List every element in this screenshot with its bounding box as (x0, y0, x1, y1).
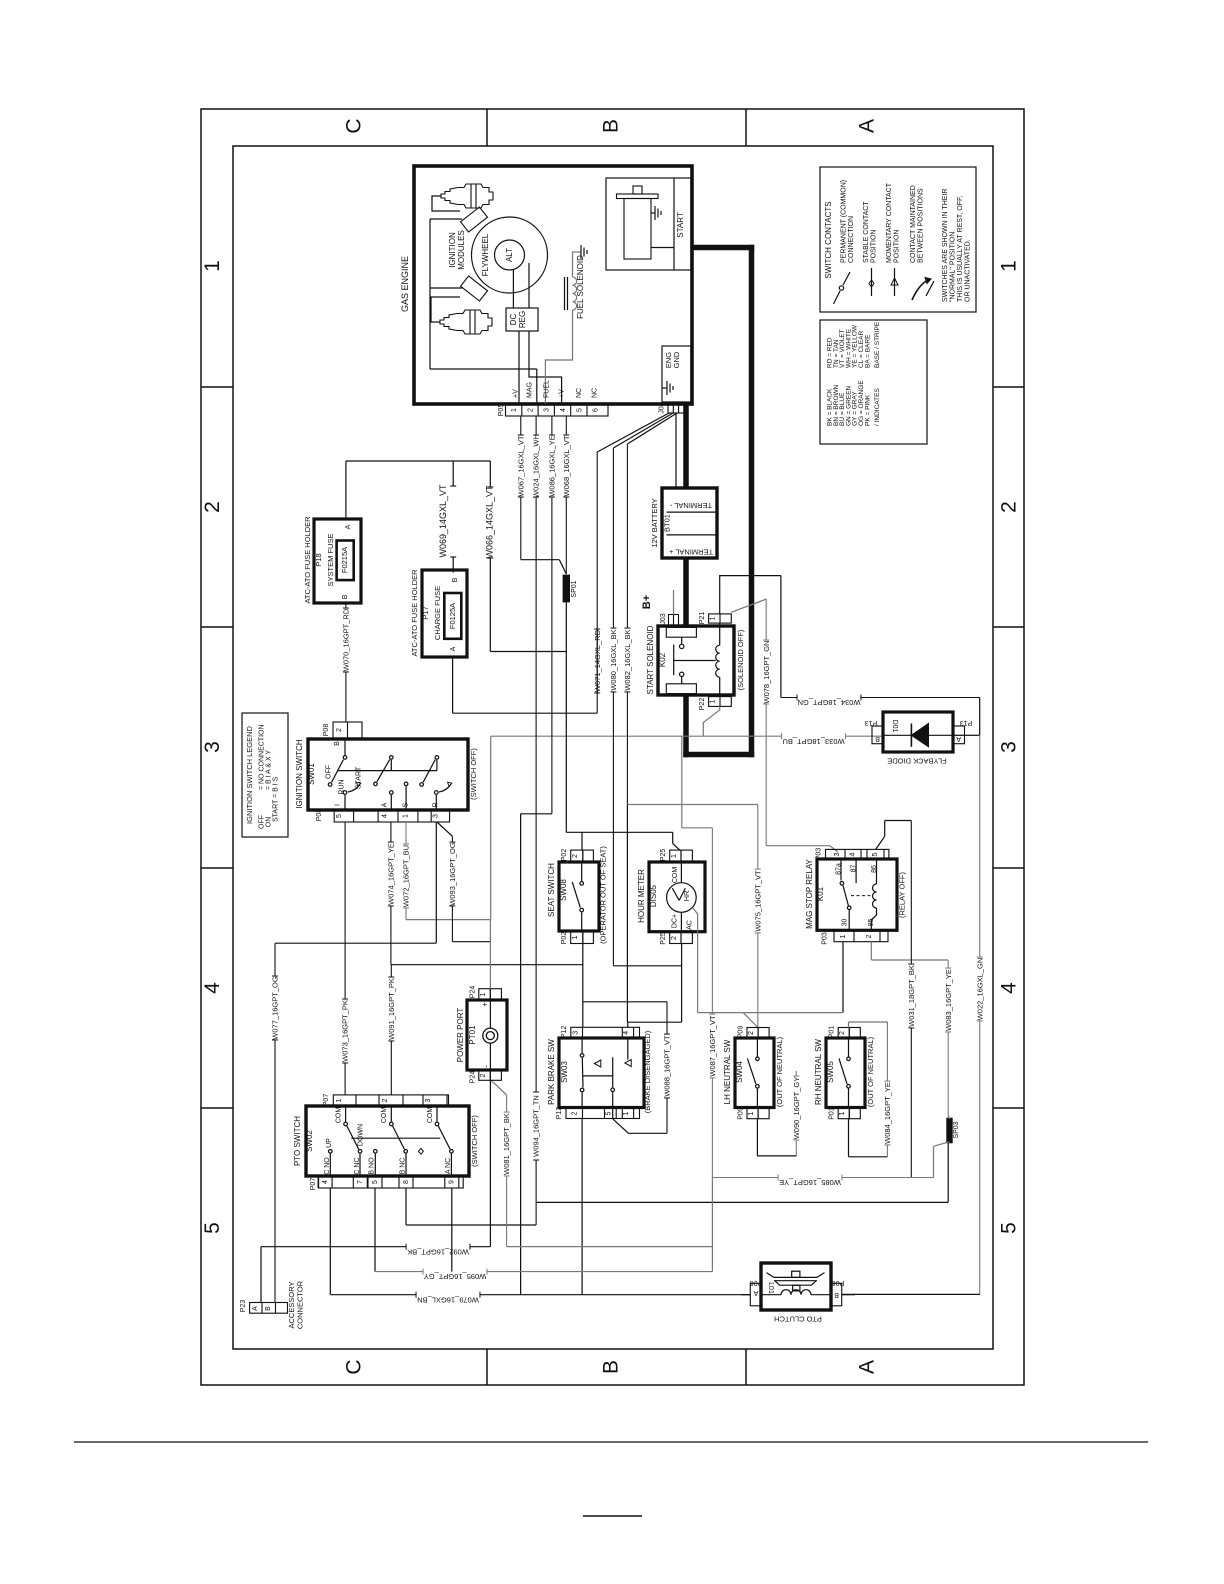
svg-text:2: 2 (201, 501, 224, 513)
svg-text:3: 3 (433, 814, 440, 818)
svg-text:GAS ENGINE: GAS ENGINE (400, 256, 410, 312)
svg-text:2: 2 (527, 408, 534, 412)
svg-text:W074_16GPT_YE: W074_16GPT_YE (387, 843, 396, 905)
svg-text:2: 2 (748, 1031, 755, 1035)
svg-text:3: 3 (998, 741, 1021, 753)
svg-text:OFF: OFF (326, 765, 333, 779)
svg-text:P25: P25 (660, 849, 667, 862)
svg-text:IGNITION SWITCH LEGEND: IGNITION SWITCH LEGEND (245, 725, 254, 824)
svg-text:W084_16GPT_YE: W084_16GPT_YE (883, 1082, 892, 1144)
svg-text:P09: P09 (738, 1107, 745, 1120)
svg-text:RUN: RUN (339, 779, 346, 794)
svg-text:3: 3 (544, 408, 551, 412)
svg-text:5: 5 (576, 408, 583, 412)
svg-text:P05: P05 (498, 404, 505, 417)
svg-text:MAG: MAG (527, 382, 534, 398)
svg-text:3: 3 (201, 741, 224, 753)
svg-text:B: B (875, 735, 880, 742)
svg-text:+V: +V (559, 389, 566, 398)
svg-text:J04: J04 (659, 402, 666, 413)
svg-text:FUEL SOLENOID: FUEL SOLENOID (576, 255, 585, 319)
svg-text:P02: P02 (561, 849, 568, 862)
svg-text:SP03: SP03 (953, 1121, 960, 1138)
svg-text:COM: COM (336, 1107, 343, 1124)
svg-text:W092_16GPT_BK: W092_16GPT_BK (407, 1247, 469, 1256)
svg-text:P08: P08 (323, 724, 330, 737)
svg-text:OR UNACTIVATED.: OR UNACTIVATED. (965, 239, 972, 302)
svg-text:SP01: SP01 (571, 580, 578, 597)
svg-text:12V BATTERY: 12V BATTERY (650, 498, 659, 547)
svg-text:2: 2 (572, 854, 579, 858)
svg-text:3: 3 (573, 1031, 580, 1035)
svg-text:PERMANENT (COMMON): PERMANENT (COMMON) (841, 180, 848, 263)
svg-text:P23: P23 (240, 1300, 247, 1313)
svg-text:F0125A: F0125A (448, 603, 457, 629)
svg-text:P06: P06 (832, 1279, 845, 1286)
svg-text:P12: P12 (556, 1107, 563, 1120)
svg-text:SW02: SW02 (305, 1130, 314, 1152)
svg-text:1: 1 (402, 814, 409, 818)
svg-text:(SWITCH OFF): (SWITCH OFF) (469, 748, 478, 800)
svg-text:2: 2 (382, 1098, 389, 1102)
svg-text:(OUT OF NEUTRAL): (OUT OF NEUTRAL) (775, 1036, 784, 1107)
svg-text:A: A (345, 524, 352, 529)
svg-text:/ INDICATES: / INDICATES (874, 388, 881, 426)
svg-text:5: 5 (606, 1111, 613, 1115)
svg-text:THIS IS USUALLY AT REST, OFF,: THIS IS USUALLY AT REST, OFF, (957, 195, 964, 302)
svg-text:W073_16GPT_PK: W073_16GPT_PK (341, 1000, 350, 1062)
svg-text:W086_16GXL_YE: W086_16GXL_YE (548, 435, 557, 496)
svg-text:= NO CONNECTION: = NO CONNECTION (259, 724, 266, 790)
svg-text:(OUT OF NEUTRAL): (OUT OF NEUTRAL) (866, 1036, 875, 1107)
svg-text:BETWEEN POSITIONS: BETWEEN POSITIONS (918, 188, 925, 263)
svg-text:NC: NC (591, 388, 598, 398)
svg-text:W034_18GPT_GN: W034_18GPT_GN (798, 698, 861, 707)
svg-text:C: C (343, 118, 366, 133)
svg-text:W072_16GPT_BU: W072_16GPT_BU (402, 845, 411, 907)
svg-text:DC+: DC+ (672, 914, 679, 928)
svg-text:W090_16GPT_GY: W090_16GPT_GY (792, 1077, 801, 1140)
svg-text:FLYWHEEL: FLYWHEEL (481, 233, 490, 276)
svg-text:BT01: BT01 (663, 514, 672, 532)
svg-text:OFF: OFF (259, 815, 266, 829)
svg-text:B: B (600, 1360, 623, 1374)
svg-text:B: B (342, 594, 349, 599)
svg-text:A: A (856, 1360, 879, 1374)
svg-text:B: B (452, 577, 459, 582)
svg-text:NC: NC (576, 388, 583, 398)
svg-text:P13: P13 (865, 719, 878, 726)
svg-text:P24: P24 (470, 986, 477, 999)
svg-text:W066_14GXL_VT: W066_14GXL_VT (485, 485, 495, 559)
svg-text:W071_14GXL_RD: W071_14GXL_RD (593, 629, 602, 692)
svg-text:POSITION: POSITION (894, 230, 901, 263)
svg-text:ON: ON (266, 817, 273, 828)
svg-text:W075_16GPT_VT: W075_16GPT_VT (753, 870, 762, 932)
svg-text:A: A (956, 735, 961, 742)
svg-text:1: 1 (623, 1111, 630, 1115)
svg-text:I: I (335, 804, 342, 806)
svg-text:"NORMAL" POSITION.: "NORMAL" POSITION. (950, 230, 957, 302)
svg-text:4: 4 (850, 852, 857, 856)
svg-text:P07: P07 (310, 1178, 317, 1191)
svg-text:4: 4 (201, 982, 224, 994)
svg-text:P02: P02 (561, 932, 568, 945)
svg-text:COM: COM (381, 1107, 388, 1124)
svg-text:SW01: SW01 (307, 763, 316, 785)
svg-text:2: 2 (866, 934, 873, 938)
svg-text:+: + (481, 1002, 490, 1007)
svg-text:IGNITION: IGNITION (448, 232, 457, 268)
svg-text:W083_16GPT_YE: W083_16GPT_YE (944, 969, 953, 1031)
svg-text:W077_16GPT_OG: W077_16GPT_OG (271, 976, 280, 1040)
svg-text:5: 5 (872, 852, 879, 856)
svg-text:SW08: SW08 (559, 879, 568, 901)
svg-text:1: 1 (671, 854, 678, 858)
svg-text:TERMINAL -: TERMINAL - (669, 501, 712, 510)
svg-text:2: 2 (998, 501, 1021, 513)
svg-text:MAG STOP RELAY: MAG STOP RELAY (805, 858, 814, 928)
svg-text:1: 1 (840, 934, 847, 938)
svg-text:P22: P22 (699, 698, 706, 711)
svg-text:P13: P13 (960, 719, 973, 726)
svg-text:5: 5 (336, 814, 343, 818)
svg-text:B NO: B NO (369, 1157, 376, 1175)
svg-text:9: 9 (449, 1180, 456, 1184)
svg-text:P08: P08 (316, 809, 323, 822)
svg-text:5: 5 (372, 1180, 379, 1184)
svg-text:B: B (600, 119, 623, 133)
svg-text:A: A (382, 802, 389, 807)
svg-text:8: 8 (403, 1180, 410, 1184)
svg-text:W069_14GXL_VT: W069_14GXL_VT (438, 484, 448, 558)
svg-text:CONNECTOR: CONNECTOR (296, 1280, 305, 1329)
svg-text:P25: P25 (660, 932, 667, 945)
svg-text:1: 1 (748, 1111, 755, 1115)
svg-text:1: 1 (572, 935, 579, 939)
svg-text:J03: J03 (660, 613, 667, 624)
svg-text:SWITCH CONTACTS: SWITCH CONTACTS (824, 201, 833, 278)
svg-text:ATC-ATO FUSE HOLDER: ATC-ATO FUSE HOLDER (410, 569, 419, 657)
svg-text:W033_18GPT_BU: W033_18GPT_BU (782, 737, 844, 746)
svg-text:GND: GND (672, 351, 681, 368)
svg-text:R: R (433, 802, 440, 807)
svg-text:1: 1 (336, 1098, 343, 1102)
svg-text:POSITION: POSITION (871, 230, 878, 263)
svg-text:5: 5 (998, 1222, 1021, 1234)
svg-text:W087_16GPT_VT: W087_16GPT_VT (708, 1015, 717, 1077)
svg-text:B: B (334, 741, 341, 746)
svg-text:3: 3 (425, 1098, 432, 1102)
svg-text:W068_16GXL_VT: W068_16GXL_VT (562, 435, 571, 496)
svg-text:CONTACT MAINTAINED: CONTACT MAINTAINED (910, 185, 917, 263)
svg-text:F0215A: F0215A (340, 547, 349, 573)
svg-text:AC: AC (687, 920, 694, 930)
svg-text:P03: P03 (822, 932, 829, 945)
svg-text:P17: P17 (421, 606, 430, 619)
svg-text:4: 4 (998, 982, 1021, 994)
svg-text:= B I A & X Y: = B I A & X Y (266, 750, 273, 790)
svg-text:30: 30 (842, 919, 849, 927)
svg-text:+V: +V (512, 389, 519, 398)
svg-text:4: 4 (560, 408, 567, 412)
svg-text:L01: L01 (767, 1282, 774, 1294)
svg-text:A: A (450, 646, 457, 651)
svg-text:4: 4 (623, 1031, 630, 1035)
svg-text:START SOLENOID: START SOLENOID (646, 625, 655, 694)
svg-text:P24: P24 (470, 1071, 477, 1084)
svg-text:IGNITION SWITCH: IGNITION SWITCH (295, 739, 304, 809)
svg-text:D01: D01 (891, 720, 898, 733)
svg-text:P12: P12 (561, 1026, 568, 1039)
svg-text:W088_16GPT_VT: W088_16GPT_VT (663, 1035, 672, 1097)
svg-text:W022_16GXL_GN: W022_16GXL_GN (975, 958, 984, 1021)
svg-text:CONNECTION: CONNECTION (848, 216, 855, 263)
svg-text:W070_16GPT_RD: W070_16GPT_RD (342, 608, 351, 671)
svg-text:FLYBACK DIODE: FLYBACK DIODE (887, 757, 946, 766)
svg-text:SWITCHES ARE SHOWN IN THEIR: SWITCHES ARE SHOWN IN THEIR (942, 189, 949, 302)
svg-text:(RELAY OFF): (RELAY OFF) (898, 872, 907, 918)
svg-text:ALT: ALT (505, 248, 514, 262)
svg-text:W079_16GXL_BN: W079_16GXL_BN (417, 1295, 479, 1304)
svg-text:W093_16GPT_OG: W093_16GPT_OG (448, 842, 457, 906)
svg-text:PK = PINK: PK = PINK (864, 394, 871, 426)
svg-text:2: 2 (480, 1073, 487, 1077)
svg-text:(OPERATOR OUT OF SEAT): (OPERATOR OUT OF SEAT) (599, 846, 608, 944)
svg-text:MODULES: MODULES (457, 230, 466, 270)
svg-text:W031_18GPT_BK: W031_18GPT_BK (907, 965, 916, 1027)
svg-text:PARK BRAKE SW: PARK BRAKE SW (547, 1039, 556, 1105)
svg-text:P18: P18 (314, 553, 323, 566)
svg-text:DC: DC (509, 314, 518, 326)
svg-text:STABLE CONTACT: STABLE CONTACT (863, 201, 870, 263)
svg-text:BASE / STRIPE: BASE / STRIPE (874, 321, 881, 368)
svg-text:W091_16GPT_PK: W091_16GPT_PK (387, 978, 396, 1040)
svg-text:1: 1 (511, 408, 518, 412)
svg-text:2: 2 (572, 1111, 579, 1115)
svg-text:CHARGE FUSE: CHARGE FUSE (433, 586, 442, 640)
svg-text:1: 1 (480, 992, 487, 996)
svg-text:W095_16GPT_GY: W095_16GPT_GY (424, 1272, 487, 1281)
svg-text:COM: COM (672, 867, 679, 884)
svg-text:A: A (252, 1306, 259, 1311)
svg-text:W085_16GPT_YE: W085_16GPT_YE (779, 1178, 841, 1187)
svg-text:PT01: PT01 (468, 1025, 477, 1045)
svg-text:1: 1 (998, 260, 1021, 272)
svg-text:HR: HR (682, 890, 691, 901)
svg-text:DOWN: DOWN (357, 1124, 364, 1146)
svg-text:REG: REG (518, 311, 527, 328)
svg-text:4: 4 (322, 1180, 329, 1184)
svg-text:1: 1 (710, 699, 717, 703)
svg-text:W024_16GXL_WH: W024_16GXL_WH (532, 434, 541, 498)
svg-text:SW03: SW03 (560, 1061, 569, 1083)
svg-text:POWER PORT: POWER PORT (456, 1008, 465, 1063)
svg-text:P01: P01 (829, 1026, 836, 1039)
svg-text:-: - (482, 1065, 491, 1068)
svg-text:P21: P21 (699, 612, 706, 625)
svg-text:W078_16GPT_GN: W078_16GPT_GN (762, 641, 771, 704)
svg-text:SEAT SWITCH: SEAT SWITCH (547, 863, 556, 917)
svg-text:DIS05: DIS05 (649, 884, 658, 907)
svg-text:6: 6 (593, 408, 600, 412)
svg-text:P03: P03 (816, 848, 823, 861)
svg-text:B+: B+ (641, 595, 653, 609)
svg-text:W067_16GXL_VT: W067_16GXL_VT (516, 435, 525, 496)
svg-text:TERMINAL +: TERMINAL + (668, 548, 713, 557)
svg-text:FUEL: FUEL (543, 380, 550, 398)
svg-text:W094_16GPT_TN: W094_16GPT_TN (532, 1095, 541, 1157)
svg-text:4: 4 (382, 814, 389, 818)
svg-text:P09: P09 (738, 1026, 745, 1039)
svg-text:A: A (753, 1289, 758, 1296)
svg-text:5: 5 (201, 1222, 224, 1234)
svg-text:RH NEUTRAL SW: RH NEUTRAL SW (814, 1039, 823, 1105)
svg-text:B: B (265, 1306, 272, 1311)
svg-text:COM: COM (427, 1107, 434, 1124)
svg-text:(SWITCH OFF): (SWITCH OFF) (470, 1115, 479, 1167)
svg-text:(SOLENOID OFF): (SOLENOID OFF) (736, 629, 745, 690)
svg-text:K02: K02 (658, 652, 667, 667)
svg-text:SW04: SW04 (735, 1061, 744, 1083)
svg-text:ATC-ATO FUSE HOLDER: ATC-ATO FUSE HOLDER (303, 516, 312, 604)
svg-text:1: 1 (710, 616, 717, 620)
svg-text:W082_16GXL_BK: W082_16GXL_BK (623, 629, 632, 690)
svg-text:PTO CLUTCH: PTO CLUTCH (774, 1315, 822, 1324)
svg-text:(BRAKE DISENGAGED): (BRAKE DISENGAGED) (643, 1030, 652, 1113)
svg-text:C: C (343, 1359, 366, 1374)
svg-text:7: 7 (357, 1180, 364, 1184)
svg-text:2: 2 (839, 1031, 846, 1035)
svg-text:B: B (834, 1291, 839, 1298)
svg-text:2: 2 (671, 936, 678, 940)
svg-text:HOUR METER: HOUR METER (637, 869, 646, 923)
svg-text:1: 1 (201, 260, 224, 272)
svg-text:2: 2 (336, 728, 343, 732)
svg-text:PTO SWITCH: PTO SWITCH (293, 1116, 302, 1166)
svg-text:P06: P06 (750, 1279, 763, 1286)
svg-text:3: 3 (834, 852, 841, 856)
svg-text:S: S (402, 802, 409, 807)
svg-text:W081_16GPT_BK: W081_16GPT_BK (502, 1113, 511, 1175)
svg-text:MOMENTARY CONTACT: MOMENTARY CONTACT (886, 182, 893, 263)
svg-text:K01: K01 (816, 886, 825, 901)
svg-text:SW05: SW05 (826, 1061, 835, 1083)
svg-text:P01: P01 (829, 1107, 836, 1120)
svg-text:W080_16GXL_BK: W080_16GXL_BK (609, 629, 618, 690)
svg-text:BA = BARE: BA = BARE (864, 334, 871, 368)
svg-text:1: 1 (839, 1111, 846, 1115)
svg-text:START = B I S: START = B I S (273, 776, 280, 822)
svg-text:LH NEUTRAL SW: LH NEUTRAL SW (723, 1039, 732, 1104)
svg-text:SYSTEM FUSE: SYSTEM FUSE (326, 534, 335, 587)
svg-text:A: A (856, 119, 879, 133)
svg-text:P07: P07 (323, 1094, 330, 1107)
svg-text:UP: UP (326, 1138, 333, 1148)
svg-text:START: START (676, 212, 685, 238)
